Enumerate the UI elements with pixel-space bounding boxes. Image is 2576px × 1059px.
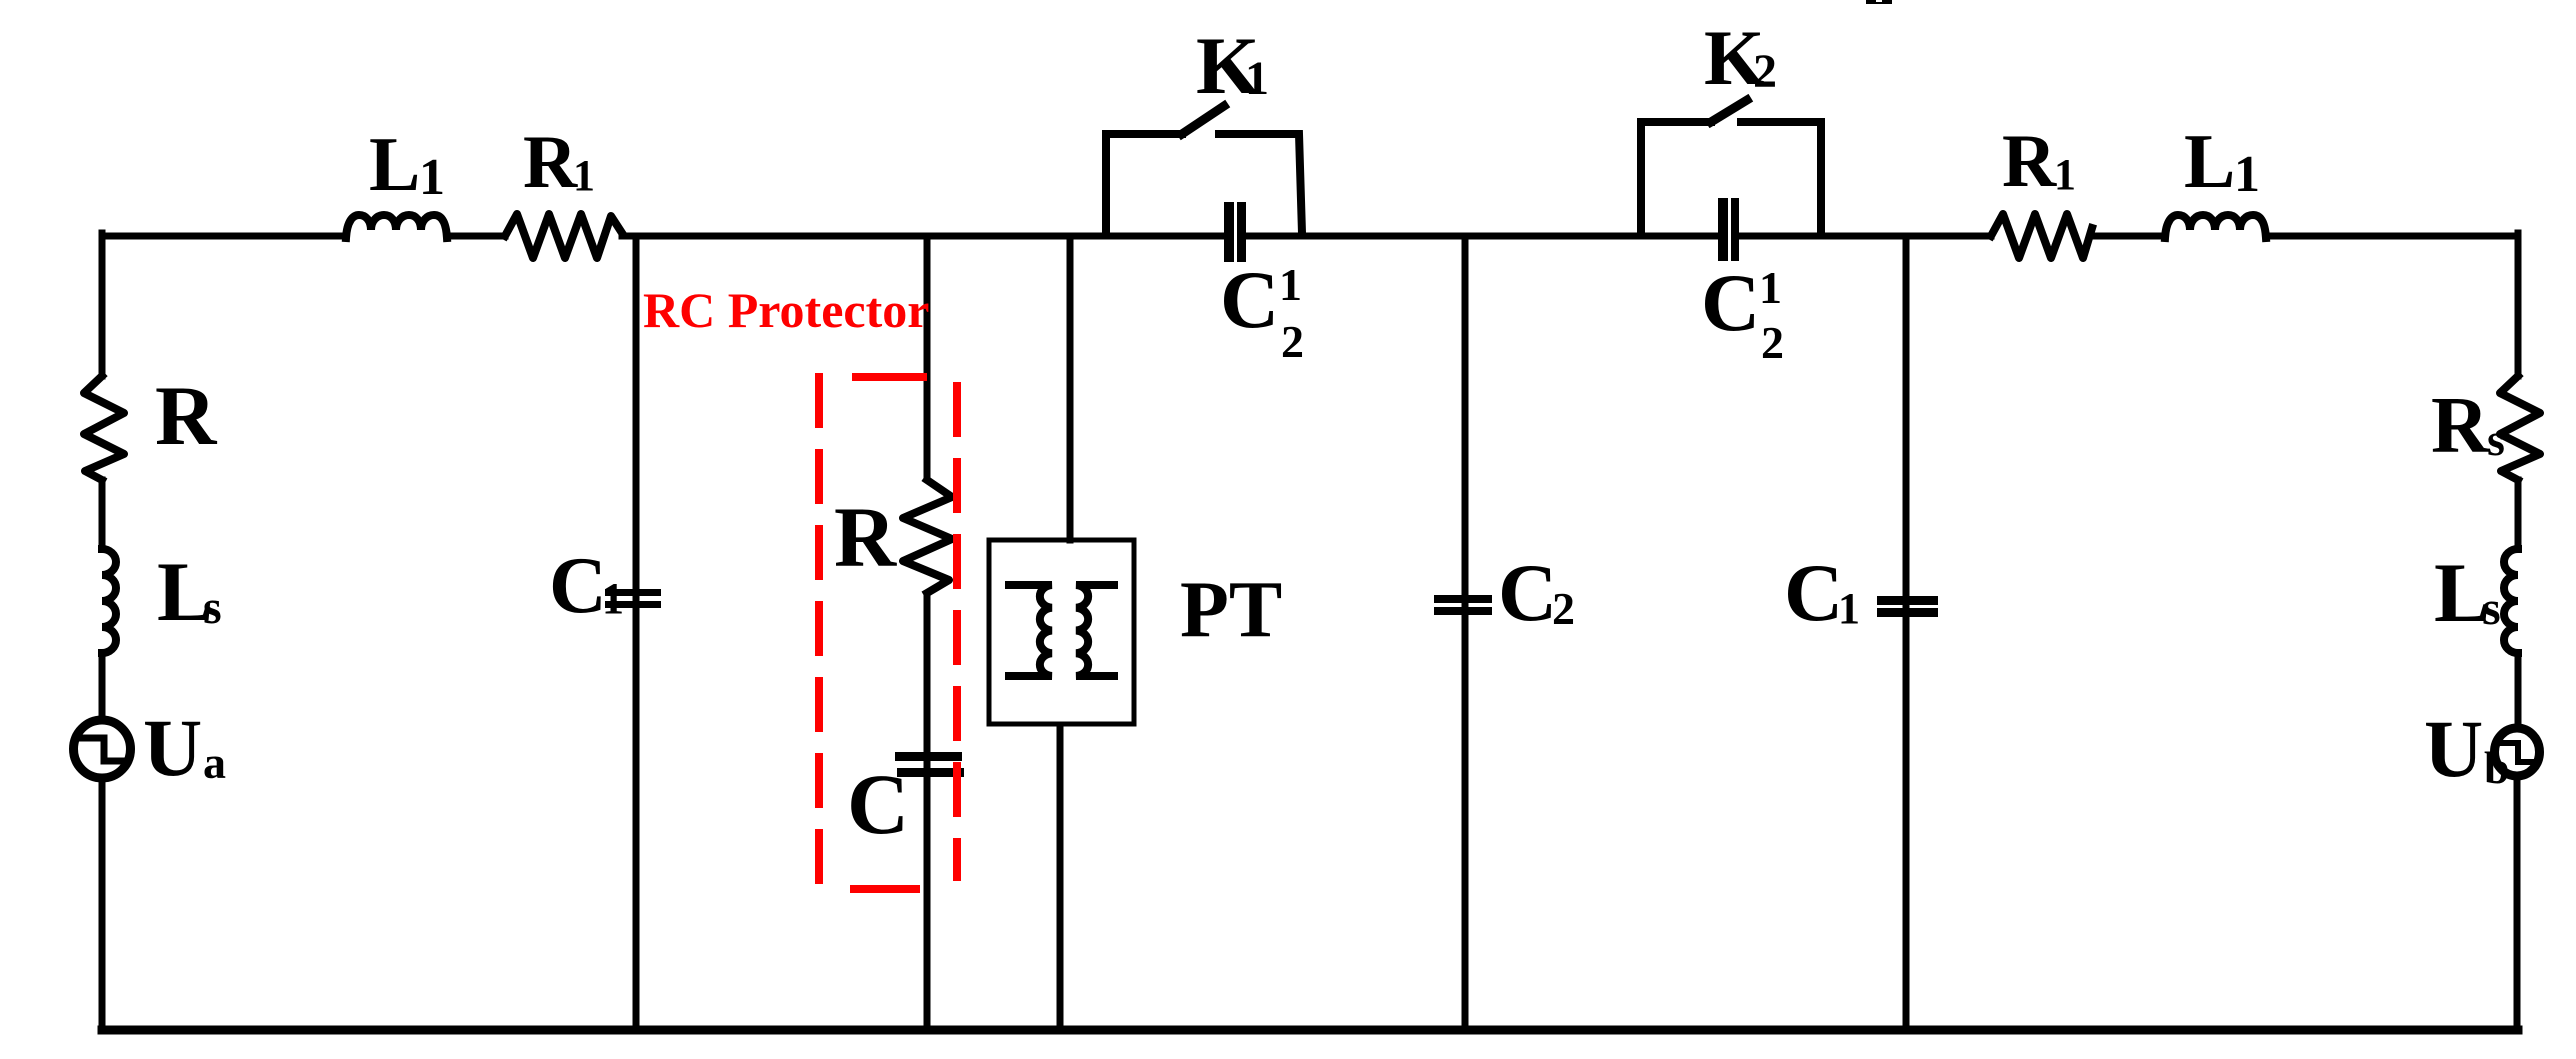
RC protector dashed red box bbox=[819, 373, 957, 897]
switch K2 : bypass loop left side and contact bbox=[1641, 122, 1711, 233]
wire right branch lower (Ub to bottom rail) bbox=[2514, 779, 2521, 1030]
AC source Ua bbox=[74, 720, 131, 778]
bottom rail bbox=[102, 1026, 2518, 1035]
svg-text:C: C bbox=[1498, 547, 1557, 638]
wire RC protector branch upper bbox=[924, 236, 931, 478]
svg-text:R: R bbox=[155, 369, 218, 463]
svg-text:U: U bbox=[2424, 703, 2483, 794]
svg-text:2: 2 bbox=[1761, 317, 1784, 368]
wire shunt capacitor C branch bbox=[633, 236, 640, 1030]
svg-text:C: C bbox=[549, 542, 607, 630]
svg-text:1: 1 bbox=[1279, 259, 1302, 310]
wire C2 branch bbox=[1462, 236, 1469, 1030]
switch K2 : blade bbox=[1711, 100, 1747, 122]
svg-text:1: 1 bbox=[1838, 584, 1860, 633]
capacitor C (RC protector) : plates bbox=[895, 752, 964, 777]
svg-text:C: C bbox=[1220, 254, 1279, 345]
svg-text:L: L bbox=[369, 121, 420, 207]
svg-text:U: U bbox=[143, 702, 202, 793]
capacitor C (left shunt) : plates bbox=[605, 589, 661, 608]
svg-text:1: 1 bbox=[602, 574, 624, 623]
wire left branch upper (corner down to R) bbox=[99, 233, 106, 376]
inductor Ls (right source branch) bbox=[2504, 549, 2518, 653]
switch K1 : bypass loop right side bbox=[1219, 134, 1302, 233]
wire C1 branch bbox=[1903, 236, 1910, 1030]
svg-text:PT: PT bbox=[1180, 566, 1282, 654]
wire top rail segment E (to right R1) bbox=[1739, 233, 1991, 240]
transformer PT : secondary winding bbox=[1076, 585, 1114, 676]
wire left branch between Ls and Ua bbox=[99, 653, 106, 718]
resistor Rs (right source branch) bbox=[2500, 376, 2540, 480]
svg-text:2: 2 bbox=[1281, 316, 1304, 367]
svg-text:s: s bbox=[2482, 582, 2501, 635]
wire top rail segment B (L1 to R1) bbox=[447, 233, 505, 240]
svg-text:RC Protector: RC Protector bbox=[643, 282, 929, 338]
wire top rail segment G (L1 to right corner) bbox=[2266, 233, 2518, 240]
capacitor C1 : plates bbox=[1877, 596, 1938, 617]
svg-text:1: 1 bbox=[419, 149, 445, 206]
capacitor C2 : plates bbox=[1434, 595, 1492, 615]
svg-text:C: C bbox=[847, 756, 909, 852]
resistor R (left source branch) bbox=[84, 376, 124, 480]
wire top rail segment F (R1 to L1 right) bbox=[2092, 233, 2165, 240]
wire right branch upper (corner down to Rs) bbox=[2515, 233, 2522, 376]
transformer PT : box bbox=[989, 540, 1134, 724]
wire left branch lower (Ua to bottom rail) bbox=[99, 777, 106, 1030]
wire PT branch lower (PT box to bottom rail) bbox=[1057, 727, 1064, 1030]
inductor L1 (left) bbox=[346, 215, 447, 238]
transformer PT : primary winding bbox=[1009, 585, 1052, 676]
stray glyph fragment at top edge bbox=[1866, 0, 1892, 4]
svg-text:1: 1 bbox=[2054, 150, 2076, 199]
wire PT branch upper (rail to PT box) bbox=[1067, 236, 1074, 540]
svg-text:1: 1 bbox=[1245, 52, 1269, 105]
svg-text:a: a bbox=[203, 737, 226, 788]
svg-text:R: R bbox=[2002, 120, 2057, 203]
wire top rail segment A (left corner to L1) bbox=[102, 233, 346, 240]
svg-text:2: 2 bbox=[1552, 583, 1575, 634]
svg-text:L: L bbox=[2184, 118, 2235, 204]
wire right branch between Rs and Ls bbox=[2515, 480, 2522, 549]
wire right branch between Ls and Ub bbox=[2515, 653, 2522, 725]
switch K1 : blade bbox=[1182, 106, 1224, 134]
wire top rail segment D (between bypass capacitors) bbox=[1246, 233, 1718, 240]
svg-text:1: 1 bbox=[2234, 146, 2260, 203]
svg-text:b: b bbox=[2484, 742, 2510, 793]
svg-text:R: R bbox=[2431, 382, 2490, 470]
inductor Ls (left source branch) bbox=[102, 549, 116, 653]
svg-text:R: R bbox=[523, 121, 578, 204]
wire left branch between R and Ls bbox=[99, 480, 106, 549]
switch K1 : bypass loop left side and contact bbox=[1106, 134, 1182, 233]
resistor R1 (right) bbox=[1991, 214, 2092, 258]
capacitor C2-1 in K2 bypass : plates bbox=[1718, 198, 1739, 261]
AC source Ub bbox=[2495, 728, 2540, 776]
wire top rail segment C (R1 to first C2-1 capacitor) bbox=[622, 233, 1224, 240]
svg-text:R: R bbox=[834, 489, 897, 585]
svg-text:2: 2 bbox=[1753, 45, 1777, 98]
svg-text:s: s bbox=[2487, 414, 2505, 465]
inductor L1 (right) bbox=[2165, 215, 2266, 238]
svg-text:s: s bbox=[203, 581, 222, 634]
resistor R1 (left) bbox=[505, 214, 622, 258]
svg-text:1: 1 bbox=[573, 151, 595, 200]
wire RC protector branch lower bbox=[924, 595, 931, 1030]
svg-text:C: C bbox=[1701, 257, 1760, 348]
resistor R (RC protector) bbox=[903, 480, 952, 593]
svg-text:1: 1 bbox=[1759, 262, 1782, 313]
capacitor C2-1 in K1 bypass : plates bbox=[1224, 202, 1246, 262]
switch K2 : bypass loop right side bbox=[1741, 122, 1821, 233]
svg-text:C: C bbox=[1784, 547, 1843, 638]
